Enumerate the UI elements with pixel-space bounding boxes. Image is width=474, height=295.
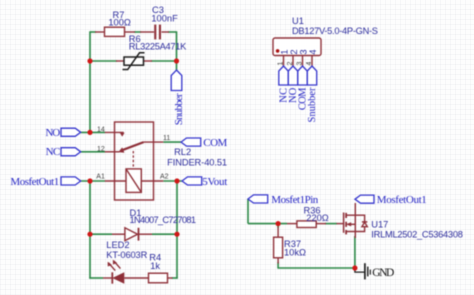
svg-text:MosfetOut1: MosfetOut1 <box>377 194 427 206</box>
svg-text:100Ω: 100Ω <box>108 17 131 27</box>
svg-text:DB127V-5.0-4P-GN-S: DB127V-5.0-4P-GN-S <box>292 26 378 36</box>
svg-text:A1: A1 <box>96 173 105 180</box>
svg-text:Snubber: Snubber <box>173 93 185 125</box>
svg-text:3: 3 <box>297 62 304 66</box>
svg-text:FINDER-40.51: FINDER-40.51 <box>167 158 227 168</box>
svg-text:U1: U1 <box>292 16 304 26</box>
svg-text:5Vout: 5Vout <box>202 176 227 188</box>
svg-text:RL2: RL2 <box>174 147 191 157</box>
svg-text:RL3225A471K: RL3225A471K <box>129 42 187 52</box>
svg-text:NO: NO <box>45 127 60 139</box>
svg-text:COM: COM <box>203 137 227 149</box>
svg-text:A2: A2 <box>160 173 169 180</box>
svg-text:100nF: 100nF <box>151 13 178 23</box>
svg-text:LED2: LED2 <box>106 240 129 250</box>
svg-text:U17: U17 <box>371 220 388 230</box>
svg-text:2: 2 <box>287 62 294 66</box>
svg-text:14: 14 <box>97 126 105 133</box>
svg-text:GND: GND <box>372 267 394 279</box>
svg-text:11: 11 <box>163 135 170 142</box>
svg-text:1N4007_C727081: 1N4007_C727081 <box>130 215 197 225</box>
svg-text:Mosfet1Pin: Mosfet1Pin <box>271 194 319 206</box>
svg-text:12: 12 <box>97 146 105 153</box>
svg-text:4: 4 <box>306 62 313 66</box>
svg-text:1: 1 <box>278 62 285 66</box>
svg-text:Snubber: Snubber <box>307 87 318 123</box>
svg-text:2: 2 <box>289 49 299 54</box>
svg-text:10kΩ: 10kΩ <box>284 248 306 258</box>
svg-text:KT-0603R: KT-0603R <box>106 250 147 260</box>
svg-text:3: 3 <box>298 49 308 54</box>
svg-text:1k: 1k <box>150 261 160 271</box>
svg-text:1: 1 <box>279 49 289 54</box>
svg-text:MosfetOut1: MosfetOut1 <box>10 176 59 188</box>
svg-text:NC: NC <box>46 146 61 158</box>
svg-text:220Ω: 220Ω <box>306 213 329 223</box>
svg-text:4: 4 <box>308 49 318 54</box>
svg-text:IRLML2502_C5364308: IRLML2502_C5364308 <box>371 229 463 239</box>
